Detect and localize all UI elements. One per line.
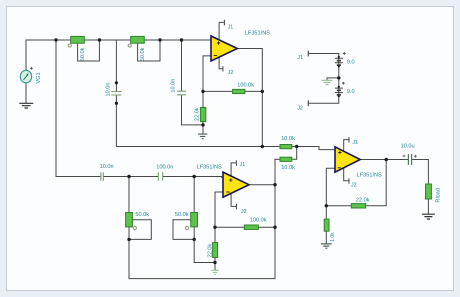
ground below R10 — [321, 244, 332, 248]
potentiometer P3 50.0k vertical — [126, 213, 137, 230]
wire supply loop J1 to J2 — [308, 54, 339, 104]
svg-text:J2: J2 — [228, 70, 234, 76]
svg-text:J1: J1 — [297, 55, 303, 61]
wire P3 top lead — [128, 177, 130, 213]
wire C4 to U2 +input — [163, 176, 223, 179]
resistor R6 10.0k — [280, 157, 292, 161]
jumper J2 of U2 — [231, 193, 236, 209]
wire U2 inverting input branch — [215, 192, 223, 227]
wire P4 bottom to ground node — [194, 227, 215, 263]
jumper J1 of U1 — [219, 20, 224, 40]
battery B1 9.0 — [335, 52, 346, 65]
node U3 output — [385, 158, 388, 161]
wire P4 wiper loop — [173, 220, 194, 240]
potentiometer P1 50.0k — [68, 36, 84, 47]
wire U1 output to summing node — [237, 49, 263, 147]
wire P2 wiper loop — [138, 40, 160, 61]
wire C1 top lead — [115, 40, 117, 91]
node P3 wiper tie — [127, 238, 130, 241]
wire P1 wiper loop — [78, 40, 100, 61]
pin dot B1 top — [338, 56, 340, 58]
wire left drop from node A to lower filter rail — [56, 40, 101, 177]
node C2 tap — [180, 38, 183, 41]
svg-text:10.0k: 10.0k — [281, 165, 295, 171]
wire C1 bottom lead to summing rail — [116, 95, 280, 146]
svg-text:J2: J2 — [351, 183, 357, 189]
capacitor C2 10.0n — [177, 91, 186, 95]
svg-text:J1: J1 — [240, 162, 246, 168]
svg-text:LF351/NS: LF351/NS — [197, 164, 222, 170]
ground below VG1 — [19, 103, 33, 108]
svg-text:50.0k: 50.0k — [135, 212, 149, 218]
svg-text:9.0: 9.0 — [347, 59, 355, 65]
wire R2 right lead — [245, 90, 262, 92]
op-amp U3 LF351/NS — [335, 147, 360, 172]
ground of supply midpoint — [322, 80, 333, 84]
wire R5 right lead to U3 +input — [292, 147, 335, 150]
wire Rload to ground — [427, 199, 429, 214]
svg-text:J1: J1 — [352, 140, 358, 146]
node U2 output — [273, 183, 276, 186]
svg-text:100.0k: 100.0k — [237, 82, 254, 88]
potentiometer P4 50.0k vertical — [185, 213, 197, 230]
connector tick J2 supply — [307, 101, 309, 106]
pin dot B2 bottom — [338, 95, 340, 97]
capacitor C4 100.0n horizontal — [158, 172, 162, 180]
node P4 wiper tie — [193, 238, 196, 241]
op-amp U1 LF351/NS — [211, 36, 237, 61]
svg-text:10.0k: 10.0k — [281, 136, 295, 142]
battery B2 9.0 — [335, 82, 345, 95]
svg-text:VG1: VG1 — [36, 72, 42, 83]
op-amp U2 LF351/NS — [223, 172, 249, 197]
wire U1 inverting input branch — [203, 56, 211, 107]
wire P3 wiper loop — [129, 220, 151, 240]
wire between C3 and C4 — [104, 176, 158, 178]
svg-text:22.0k: 22.0k — [356, 198, 370, 204]
wire R8 leads — [214, 227, 216, 270]
svg-text:10.0n: 10.0n — [170, 79, 176, 93]
node R2 right — [261, 90, 264, 93]
wire U3 output to C5 — [360, 159, 408, 161]
svg-text:22.0k: 22.0k — [207, 244, 213, 258]
node summing right — [295, 145, 298, 148]
resistor R10 2.2k vertical — [324, 219, 329, 231]
capacitor C5 10.0u — [403, 154, 417, 165]
wire P4 top lead — [193, 177, 195, 213]
wire R3 bottom lead — [202, 122, 204, 134]
svg-text:10.0n: 10.0n — [100, 164, 114, 170]
svg-text:50.0k: 50.0k — [175, 212, 189, 218]
node ground stage1 — [201, 123, 204, 126]
potentiometer P2 50.0k — [128, 36, 144, 47]
wire R7 right lead — [258, 226, 275, 228]
node U3 inverting — [325, 204, 328, 207]
node R7 right — [273, 226, 276, 229]
jumper J2 of U3 — [344, 168, 349, 183]
node summing left — [261, 145, 264, 148]
node U1 inverting — [201, 90, 204, 93]
wire top rail from VG1 to U1 +input — [26, 40, 211, 70]
node P1 wiper tie — [98, 38, 101, 41]
ground below Rload — [422, 214, 435, 219]
pin dot B2 top — [338, 86, 340, 88]
resistor R9 22.0k — [351, 204, 365, 208]
wire R6 right lead — [292, 147, 297, 160]
voltage source VG1 — [20, 67, 33, 83]
resistor R8 22.0k vertical — [213, 243, 218, 258]
node A on top rail — [54, 38, 57, 41]
svg-text:100.0n: 100.0n — [156, 165, 173, 171]
wire R9 right lead to output riser — [366, 160, 386, 206]
svg-text:1.0k: 1.0k — [330, 232, 336, 242]
svg-text:22.0k: 22.0k — [195, 107, 201, 121]
wire R7 left lead — [215, 226, 244, 228]
svg-text:J1: J1 — [228, 25, 234, 31]
svg-text:J2: J2 — [241, 209, 247, 215]
svg-text:50.0k: 50.0k — [140, 47, 146, 61]
svg-text:LF351/NS: LF351/NS — [357, 172, 382, 178]
node ground stage2 — [213, 261, 216, 264]
svg-text:50.0k: 50.0k — [80, 47, 86, 61]
jumper J1 of U2 — [231, 161, 236, 176]
pin dot C1 bottom — [115, 102, 118, 105]
node P3 top — [127, 175, 130, 178]
svg-text:Rload: Rload — [436, 188, 442, 203]
svg-text:10.0u: 10.0u — [401, 144, 415, 150]
resistor R3 22.0k vertical — [200, 107, 205, 121]
svg-text:100.0k: 100.0k — [250, 217, 267, 223]
connector tick J1 supply — [307, 51, 309, 56]
pin dot C1 top — [115, 81, 118, 84]
wire R2 left lead — [203, 90, 233, 92]
wire U2 output — [249, 184, 275, 186]
node P2 wiper tie — [158, 38, 161, 41]
wire U3 inverting input branch — [326, 168, 335, 244]
resistor R7 100.0k — [244, 225, 258, 229]
jumper J1 of U3 — [344, 138, 349, 152]
svg-text:LF351/NS: LF351/NS — [245, 31, 270, 37]
svg-text:10.0n: 10.0n — [105, 83, 111, 97]
node P4 top — [193, 175, 196, 178]
pin dot B1 bottom — [338, 65, 340, 67]
resistor R5 10.0k — [280, 145, 292, 149]
ground below R8 — [211, 270, 219, 274]
wire supply ground stub — [327, 78, 339, 80]
svg-text:9.0: 9.0 — [347, 89, 355, 95]
wire C2 top lead — [181, 40, 183, 91]
wire VG1 to ground — [25, 83, 27, 103]
svg-text:J2: J2 — [297, 106, 303, 112]
resistor Rload vertical — [426, 184, 432, 199]
wire R6 left lead — [275, 158, 280, 160]
capacitor C1 10.0n — [111, 92, 121, 96]
wire C5 to Rload — [412, 160, 428, 185]
ground below R3 — [198, 134, 207, 139]
node U2 inverting feedback — [213, 226, 216, 229]
capacitor C3 10.0n horizontal — [101, 172, 103, 180]
wire C2 bottom lead to ground node — [182, 95, 204, 125]
wire R9 left lead — [326, 205, 351, 207]
wire P3 bottom to bottom rail to U2 output riser — [129, 159, 275, 278]
node supply midpoint — [337, 76, 340, 79]
jumper J2 of U1 — [219, 57, 223, 71]
resistor R2 100.0k — [233, 89, 245, 93]
